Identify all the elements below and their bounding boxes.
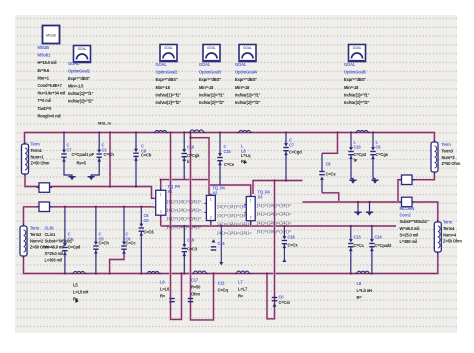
label Goal1 parameters bbox=[68, 61, 94, 104]
inductor L8 bbox=[235, 271, 252, 273]
label C12 ref bbox=[68, 232, 74, 242]
svg-text:L=Lq: L=Lq bbox=[241, 153, 251, 158]
wire return loop B bbox=[191, 138, 214, 320]
svg-text:C=Cx: C=Cx bbox=[288, 243, 299, 248]
label Term2 parameters bbox=[30, 226, 49, 250]
label C18 ref bbox=[354, 235, 362, 240]
svg-text:OptimGoal2: OptimGoal2 bbox=[156, 70, 179, 75]
label C12 value bbox=[68, 245, 81, 250]
ground G1 bbox=[354, 209, 361, 216]
svg-text:GOAL: GOAL bbox=[156, 62, 168, 67]
svg-text:Min=-18: Min=-18 bbox=[156, 85, 171, 90]
inductor L4 bbox=[355, 130, 371, 132]
svg-text:OptimGoal1: OptimGoal1 bbox=[68, 69, 91, 74]
svg-text:Expr="dBS": Expr="dBS" bbox=[156, 77, 178, 82]
node arrow n1 bbox=[219, 262, 223, 265]
capacitor C6b bbox=[139, 207, 144, 274]
svg-text:C=Ca: C=Ca bbox=[354, 243, 365, 248]
label C7 ref bbox=[289, 138, 295, 148]
stub to ground G2 bbox=[369, 202, 371, 209]
wire mid output line to Term4 bbox=[303, 202, 438, 222]
svg-text:C=Cgs: C=Cgs bbox=[376, 152, 389, 157]
svg-text:1: 1 bbox=[160, 192, 162, 196]
node arrow C16 end bbox=[282, 259, 286, 262]
capacitor on loop A bbox=[169, 299, 174, 302]
svg-text:R=: R= bbox=[160, 294, 166, 299]
svg-text:IndVar[2]="f2": IndVar[2]="f2" bbox=[199, 100, 225, 105]
svg-text:C=Cb: C=Cb bbox=[141, 153, 152, 158]
label C16 value bbox=[288, 243, 299, 248]
svg-text:GOAL: GOAL bbox=[207, 46, 216, 50]
capacitor on loop B right leg bbox=[211, 239, 216, 250]
label L6 value bbox=[160, 280, 170, 299]
label C1 ref bbox=[67, 143, 73, 153]
cursor mark 2 bbox=[76, 299, 79, 303]
svg-text:C=Cpd: C=Cpd bbox=[68, 245, 81, 250]
svg-text:C7: C7 bbox=[289, 142, 295, 147]
port Term2 bbox=[20, 224, 27, 258]
capacitor C4 bbox=[182, 133, 187, 180]
microstrip line TL4 bbox=[399, 175, 415, 185]
svg-text:MSUB: MSUB bbox=[38, 45, 50, 50]
svg-text:Min=-1.5: Min=-1.5 bbox=[68, 84, 84, 89]
ground C1 gnd bbox=[64, 174, 76, 181]
svg-text:CLin1: CLin1 bbox=[45, 232, 56, 237]
capacitor C15 bbox=[182, 226, 187, 274]
label C17 labels bbox=[279, 295, 291, 305]
inductor L7 bbox=[192, 271, 209, 273]
svg-text:Rs=5: Rs=5 bbox=[77, 161, 87, 166]
svg-text:Term2: Term2 bbox=[30, 232, 42, 237]
wire return loop A bbox=[171, 133, 182, 320]
svg-text:C=Cq: C=Cq bbox=[218, 288, 229, 293]
wire block bottom bus bbox=[161, 225, 396, 227]
label C8 ref bbox=[354, 140, 362, 150]
svg-text:MCORN: MCORN bbox=[400, 206, 415, 211]
svg-text:Corn2: Corn2 bbox=[400, 213, 412, 218]
svg-text:1: 1 bbox=[250, 199, 252, 203]
wire vertical tie at x=110 bbox=[109, 133, 111, 187]
svg-text:GOAL: GOAL bbox=[78, 47, 87, 51]
svg-text:C=Cc: C=Cc bbox=[126, 241, 137, 246]
pin parameter text X3 pins bbox=[257, 203, 293, 234]
svg-text:L=393 mil: L=393 mil bbox=[45, 258, 62, 263]
capacitor C5 bbox=[217, 133, 222, 186]
label C4 value bbox=[187, 153, 200, 164]
inductor L5 bbox=[72, 271, 87, 273]
inductor L1 bbox=[153, 130, 169, 132]
microstrip line TL2 bbox=[37, 183, 53, 193]
svg-text:IndVar[1]="f1": IndVar[1]="f1" bbox=[235, 92, 261, 97]
label C4 ref bbox=[187, 145, 195, 150]
svg-text:IndVar[1]="f1": IndVar[1]="f1" bbox=[344, 92, 370, 97]
svg-text:Expr="dBS": Expr="dBS" bbox=[68, 76, 90, 81]
port Term3 bbox=[431, 140, 438, 174]
svg-text:C=Cgd: C=Cgd bbox=[289, 150, 302, 155]
svg-text:C13: C13 bbox=[354, 235, 362, 240]
label C6b value bbox=[144, 230, 155, 235]
label L8 value bbox=[238, 280, 248, 299]
goal controller Goal5 bbox=[349, 45, 366, 62]
cursor mark bbox=[244, 161, 247, 165]
wire stub to block X1 top bbox=[159, 180, 161, 191]
label L3 value bbox=[241, 153, 251, 164]
svg-text:C0: C0 bbox=[144, 218, 150, 223]
capacitor C9 bbox=[370, 133, 375, 178]
label C16b ref bbox=[218, 241, 226, 246]
wire block top bus 1 bbox=[162, 178, 209, 180]
svg-text:R=50: R=50 bbox=[191, 285, 201, 290]
svg-text:W=46.0 mil: W=46.0 mil bbox=[45, 245, 65, 250]
stub to ground G1 bbox=[357, 202, 359, 209]
pin parameter text X2 pins bbox=[217, 205, 253, 236]
label CLin1 parameters bbox=[45, 226, 74, 263]
svg-text:Cond=5.8E+7: Cond=5.8E+7 bbox=[38, 83, 63, 88]
capacitor C1 bbox=[61, 133, 66, 174]
svg-text:L=L6: L=L6 bbox=[160, 287, 170, 292]
svg-text:1: 1 bbox=[210, 197, 212, 201]
svg-text:C=Cst: C=Cst bbox=[279, 300, 291, 305]
svg-text:GOAL: GOAL bbox=[235, 62, 247, 67]
svg-text:Term: Term bbox=[443, 220, 453, 225]
capacitor C13 bbox=[93, 207, 98, 274]
svg-text:TanD=0: TanD=0 bbox=[38, 106, 53, 111]
svg-text:L=L5 nH: L=L5 nH bbox=[73, 290, 88, 295]
svg-text:IndVar[1]="f1": IndVar[1]="f1" bbox=[199, 92, 225, 97]
label C13 ref bbox=[99, 232, 105, 242]
svg-text:C19: C19 bbox=[187, 238, 195, 243]
label L3 ref bbox=[241, 144, 246, 154]
svg-text:C11: C11 bbox=[218, 281, 226, 286]
label C2 value bbox=[104, 152, 115, 157]
svg-text:Ohm: Ohm bbox=[191, 292, 200, 297]
capacitor C17 series bbox=[272, 298, 277, 307]
svg-text:C9: C9 bbox=[376, 144, 382, 149]
label C16 ref bbox=[288, 235, 296, 240]
svg-text:C18: C18 bbox=[288, 235, 296, 240]
inductor L2 bbox=[188, 130, 206, 133]
label C9 ref bbox=[376, 140, 382, 150]
label C15 ref bbox=[187, 238, 195, 243]
wire series cap feed from top net bbox=[322, 133, 338, 154]
capacitor C7 bbox=[283, 133, 288, 181]
svg-text:Term1: Term1 bbox=[31, 148, 43, 153]
capacitor C14 branch with jog bbox=[110, 253, 124, 274]
label C18 value bbox=[354, 243, 365, 248]
wire block top bus 2b bbox=[253, 181, 303, 195]
svg-text:C=C6: C=C6 bbox=[144, 230, 155, 235]
label C14 ref bbox=[126, 232, 132, 242]
label L9 value bbox=[357, 281, 373, 300]
label Goal2 parameters bbox=[156, 62, 182, 105]
svg-text:C=Ce: C=Ce bbox=[224, 162, 235, 167]
svg-text:S=25.0 mil: S=25.0 mil bbox=[400, 232, 419, 237]
svg-text:Z=50 Ohm: Z=50 Ohm bbox=[443, 239, 462, 244]
port Term4 bbox=[434, 220, 441, 254]
capacitor on loop B bbox=[188, 299, 193, 302]
svg-text:GOAL: GOAL bbox=[344, 62, 356, 67]
svg-text:MSL ln: MSL ln bbox=[98, 121, 112, 126]
label C6b ref bbox=[144, 213, 150, 223]
svg-text:GOAL: GOAL bbox=[353, 46, 362, 50]
label C19 ref bbox=[375, 235, 383, 240]
svg-text:}1{)=(}2{)=(}3{)=: }1{)=(}2{)=(}3{)= bbox=[257, 203, 293, 208]
svg-text:C17: C17 bbox=[191, 278, 199, 283]
svg-text:}1{)=(}2{)=(}3{)=: }1{)=(}2{)=(}3{)= bbox=[167, 217, 203, 222]
svg-text:}1{)=(}2{)=(}3{)=: }1{)=(}2{)=(}3{)= bbox=[217, 231, 253, 236]
svg-text:C=Cgk: C=Cgk bbox=[187, 153, 200, 158]
goal controller Goal3 bbox=[203, 45, 220, 62]
svg-text:C=Cp3: C=Cp3 bbox=[354, 152, 367, 157]
label C13 value bbox=[99, 241, 110, 246]
inductor L3 bbox=[237, 130, 253, 132]
svg-text:MSub: MSub bbox=[46, 34, 56, 38]
svg-text:L=Lb nH: L=Lb nH bbox=[357, 288, 373, 293]
goal controller Goal1 bbox=[74, 46, 91, 63]
svg-text:Rough=0 mil: Rough=0 mil bbox=[38, 113, 61, 118]
label C8 ref bbox=[326, 162, 332, 167]
svg-text:CLIN: CLIN bbox=[45, 226, 54, 231]
svg-text:Term: Term bbox=[31, 142, 41, 147]
svg-text:MSub1: MSub1 bbox=[38, 53, 52, 58]
inductor L9 bbox=[355, 271, 371, 273]
svg-text:Mur=1: Mur=1 bbox=[38, 75, 50, 80]
label C2 ref bbox=[102, 143, 108, 153]
svg-text:}1{)=(}2{)=(}3{)=: }1{)=(}2{)=(}3{)= bbox=[167, 208, 203, 213]
svg-text:C=C3: C=C3 bbox=[187, 247, 198, 252]
wire stub X3 bottom bbox=[249, 221, 251, 226]
label C3 value bbox=[141, 153, 152, 158]
svg-text:GOAL: GOAL bbox=[199, 62, 211, 67]
svg-text:IndVar[1]="f1": IndVar[1]="f1" bbox=[68, 91, 94, 96]
ground C2 gnd bbox=[88, 174, 100, 181]
svg-text:C0: C0 bbox=[279, 295, 285, 300]
svg-text:Expr="dBS": Expr="dBS" bbox=[199, 77, 221, 82]
svg-text:H=15.0 mil: H=15.0 mil bbox=[38, 60, 57, 65]
svg-text:}1{)=(}2{)=(}3{)=: }1{)=(}2{)=(}3{)= bbox=[257, 212, 293, 217]
svg-text:Num=2: Num=2 bbox=[30, 238, 44, 243]
svg-text:2: 2 bbox=[250, 216, 252, 220]
svg-text:Term3: Term3 bbox=[442, 148, 454, 153]
capacitor C8 bbox=[348, 133, 353, 178]
goal controller Goal4 bbox=[239, 45, 256, 62]
inductor L6 bbox=[146, 271, 162, 273]
wire series cap to mid line bbox=[322, 193, 339, 202]
svg-text:C10: C10 bbox=[354, 144, 362, 149]
capacitor C19 bbox=[369, 226, 374, 274]
ground G2 bbox=[366, 209, 373, 216]
substrate definition box MSUB bbox=[43, 26, 60, 44]
svg-text:GOAL: GOAL bbox=[164, 46, 173, 50]
svg-text:Num=3: Num=3 bbox=[442, 155, 456, 160]
label Term4 parameters bbox=[443, 220, 462, 244]
wire corner link to MLIN TL1 and Term3 bbox=[398, 173, 434, 202]
capacitor C12 bbox=[62, 207, 67, 274]
capacitor C16 bbox=[282, 226, 287, 249]
svg-text:OptimGoal4: OptimGoal4 bbox=[235, 70, 258, 75]
svg-text:IndVar[2]="f2": IndVar[2]="f2" bbox=[156, 100, 182, 105]
svg-text:OptimGoal5: OptimGoal5 bbox=[344, 70, 367, 75]
svg-text:Min=-18: Min=-18 bbox=[235, 85, 250, 90]
label C14 value bbox=[126, 241, 137, 246]
svg-text:IndVar[2]="f2": IndVar[2]="f2" bbox=[235, 100, 261, 105]
wire feed from top net to block X2 bbox=[191, 133, 210, 196]
svg-text:Z=50 Ohm: Z=50 Ohm bbox=[442, 161, 461, 166]
label C9 value bbox=[376, 152, 389, 157]
label Term1 parameters bbox=[31, 142, 50, 166]
wire line W2 from Term2 to block X1 lower pin bbox=[24, 207, 154, 226]
label C15 value bbox=[187, 247, 198, 252]
svg-text:C=Ch: C=Ch bbox=[104, 152, 115, 157]
svg-text:C16: C16 bbox=[218, 241, 226, 246]
svg-text:Min=-18: Min=-18 bbox=[199, 85, 214, 90]
wire stub X1 bottom bbox=[159, 215, 161, 226]
wire junctions bbox=[63, 131, 374, 274]
wire top net from Term1 to Term3 bbox=[25, 133, 435, 145]
svg-text:IndVar[1]="f1": IndVar[1]="f1" bbox=[156, 92, 182, 97]
svg-text:C8: C8 bbox=[326, 162, 332, 167]
svg-text:C15: C15 bbox=[224, 149, 232, 154]
svg-text:R=: R= bbox=[357, 295, 363, 300]
amplifier block X3 bbox=[244, 195, 255, 223]
svg-text:2: 2 bbox=[210, 216, 212, 220]
label Goal4 parameters bbox=[235, 62, 261, 105]
microstrip line TL5 bbox=[399, 197, 415, 207]
svg-text:Term: Term bbox=[30, 226, 40, 231]
svg-text:Num=1: Num=1 bbox=[31, 154, 45, 159]
wire block top bus 2a into X3 bbox=[209, 185, 251, 197]
pin parameter text X1 pins bbox=[167, 199, 203, 230]
wire bottom net from Term2 to Term4 bbox=[24, 252, 438, 274]
svg-text:C=Cs: C=Cs bbox=[326, 172, 337, 177]
svg-text:Er=9.6: Er=9.6 bbox=[38, 68, 50, 73]
capacitor C2 bbox=[97, 133, 102, 174]
svg-text:R=: R= bbox=[238, 294, 244, 299]
wire return loop C bbox=[267, 181, 275, 319]
capacitor C14 bbox=[121, 207, 126, 254]
svg-text:Num=4: Num=4 bbox=[443, 232, 457, 237]
amplifier block X1 bbox=[154, 188, 166, 217]
svg-text:L=380 mil: L=380 mil bbox=[400, 239, 417, 244]
svg-text:C10: C10 bbox=[187, 145, 195, 150]
svg-text:OptimGoal3: OptimGoal3 bbox=[199, 70, 222, 75]
svg-text:Subst="MSub1": Subst="MSub1" bbox=[400, 219, 429, 224]
label X2 ref bbox=[213, 186, 226, 196]
capacitor C3 bbox=[133, 133, 138, 187]
wire stub X2 bottom bbox=[210, 221, 212, 227]
label C3 ref bbox=[141, 144, 147, 154]
label C11 ref bbox=[218, 281, 229, 293]
svg-text:Z=50 Ohm: Z=50 Ohm bbox=[31, 161, 50, 166]
label C7 value bbox=[289, 150, 302, 155]
label L5 value bbox=[73, 283, 88, 302]
ground C9 gnd bbox=[371, 177, 378, 184]
svg-text:T=0 mil: T=0 mil bbox=[38, 98, 51, 103]
goal controller Goal2 bbox=[160, 45, 177, 62]
svg-text:IndVar[2]="f2": IndVar[2]="f2" bbox=[68, 99, 94, 104]
label C19 value bbox=[375, 243, 393, 248]
ground C8 gnd bbox=[349, 177, 356, 184]
svg-text:}1{)=(}2{)=(}3{)=: }1{)=(}2{)=(}3{)= bbox=[167, 199, 203, 204]
svg-text:W=46.0 mil: W=46.0 mil bbox=[400, 226, 420, 231]
label X3 ref bbox=[258, 190, 271, 200]
wire input line W1 to block X1 bbox=[25, 175, 154, 199]
svg-text:C14: C14 bbox=[375, 235, 383, 240]
svg-text:GOAL: GOAL bbox=[68, 61, 80, 66]
stub with arrow end bbox=[220, 226, 222, 262]
label X1 ref bbox=[168, 184, 181, 194]
microstrip line TL3 bbox=[37, 202, 53, 212]
label C8 value bbox=[326, 172, 337, 177]
label Term3 parameters bbox=[442, 142, 461, 166]
svg-text:IndVar[2]="f2": IndVar[2]="f2" bbox=[344, 100, 370, 105]
label C1 value bbox=[72, 152, 95, 157]
svg-text:Expr="dBS": Expr="dBS" bbox=[344, 77, 366, 82]
svg-text:Term4: Term4 bbox=[443, 226, 455, 231]
C16 lower stub bbox=[283, 249, 285, 262]
svg-text:L=L7: L=L7 bbox=[238, 287, 248, 292]
svg-text:}1{)=(}2{)=(}3{)=: }1{)=(}2{)=(}3{)= bbox=[257, 221, 293, 226]
label Goal3 parameters bbox=[199, 62, 225, 105]
label C5 value bbox=[224, 162, 235, 167]
capacitor C18 bbox=[348, 226, 353, 274]
svg-text:C=Cpad1 pF: C=Cpad1 pF bbox=[72, 152, 95, 157]
label C8 value bbox=[354, 152, 367, 163]
svg-text:GOAL: GOAL bbox=[243, 46, 252, 50]
label MSub1 parameters bbox=[38, 45, 66, 118]
label Goal5 parameters bbox=[344, 62, 370, 105]
capacitor C8 series bbox=[319, 153, 324, 193]
label Corn2 parameters bbox=[400, 206, 429, 244]
amplifier block X2 bbox=[204, 193, 215, 222]
svg-text:2: 2 bbox=[160, 210, 162, 214]
label C1 value2 bbox=[77, 161, 87, 166]
svg-text:C=Ch: C=Ch bbox=[99, 241, 110, 246]
label L7 ref bbox=[191, 278, 201, 297]
svg-text:Hu=3.9e+34 mil: Hu=3.9e+34 mil bbox=[38, 91, 66, 96]
svg-text:C=Cpad2: C=Cpad2 bbox=[375, 243, 393, 248]
svg-text:S=25.0 mil: S=25.0 mil bbox=[45, 251, 64, 256]
port Term1 bbox=[22, 142, 29, 176]
label C5 ref bbox=[224, 144, 232, 154]
svg-text:Term: Term bbox=[442, 142, 452, 147]
svg-text:Min=-18: Min=-18 bbox=[344, 85, 359, 90]
svg-text:Expr="dBS": Expr="dBS" bbox=[235, 77, 257, 82]
svg-text:C4: C4 bbox=[68, 237, 74, 242]
